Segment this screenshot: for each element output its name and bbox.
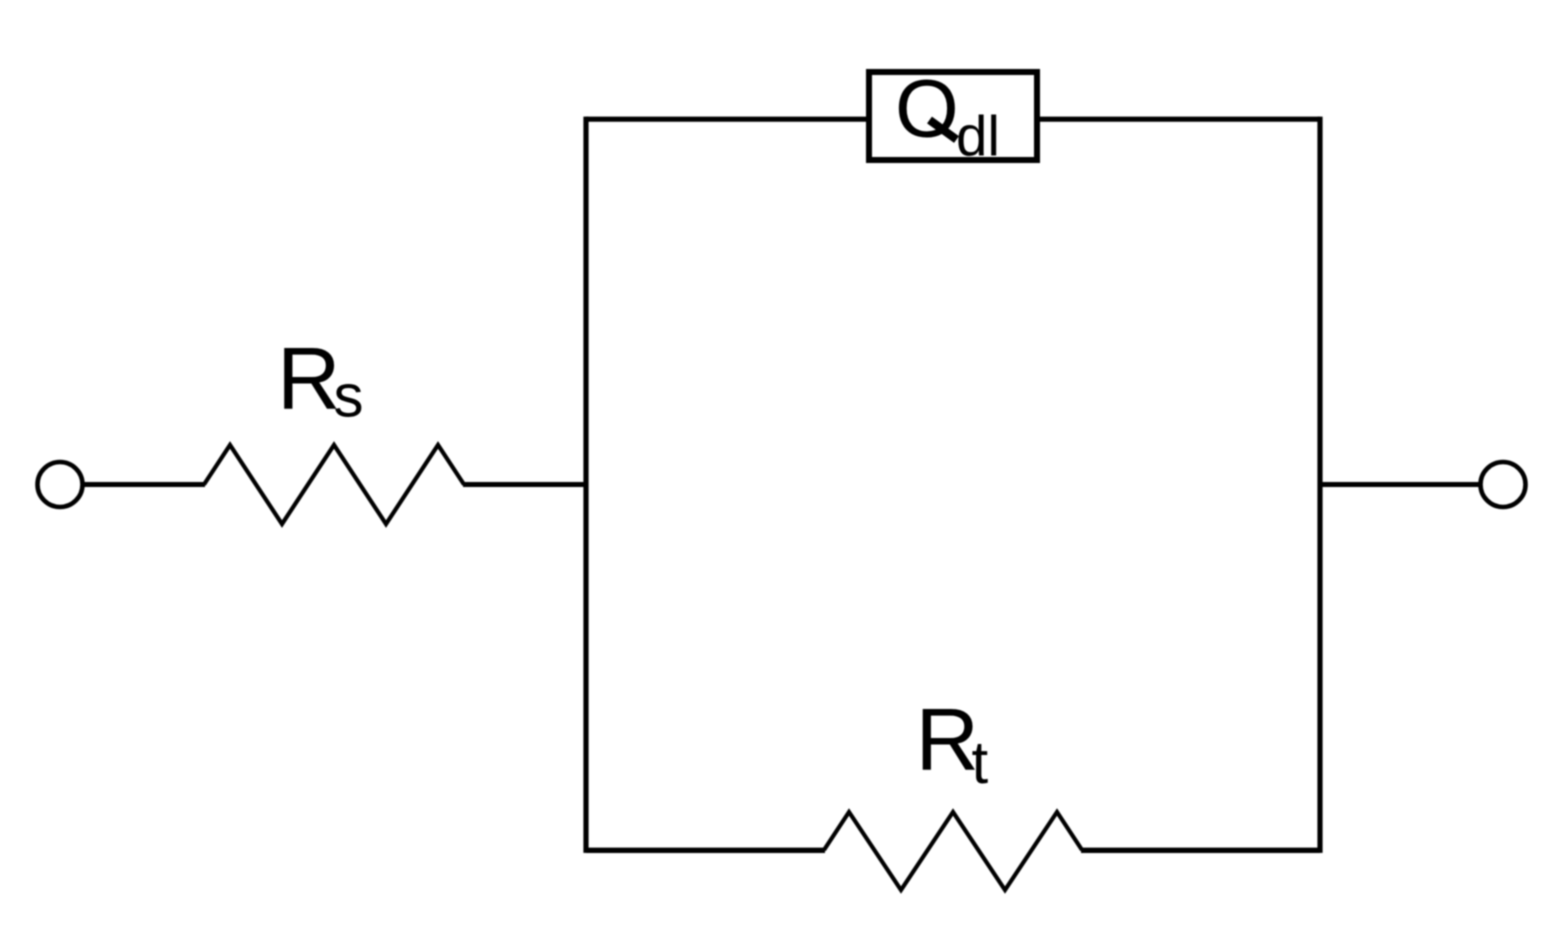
CPE Qdl box <box>869 72 1037 160</box>
terminal right <box>1481 462 1526 507</box>
resistor Rs <box>204 445 464 524</box>
svg-text:s: s <box>334 363 364 430</box>
wire top-right segment <box>1037 117 1320 122</box>
svg-text:R: R <box>277 329 341 428</box>
svg-text:O: O <box>895 64 959 155</box>
svg-text:t: t <box>972 729 989 796</box>
resistor Rt <box>824 812 1082 890</box>
wire output <box>1320 482 1482 487</box>
wire top-left segment <box>586 117 869 122</box>
wire left vertical branch (node A) <box>583 117 588 853</box>
svg-text:dl: dl <box>956 105 1000 168</box>
label Rs <box>277 329 364 430</box>
svg-text:R: R <box>916 690 980 789</box>
wire Rs to node A <box>463 482 588 487</box>
wire right vertical branch (node B) <box>1317 117 1322 853</box>
wire bottom-left segment <box>586 848 825 853</box>
label Rt <box>916 690 989 797</box>
wire input to Rs <box>81 482 205 487</box>
terminal left <box>38 462 83 507</box>
wire bottom-right segment <box>1081 848 1320 853</box>
label Qdl <box>895 64 1000 168</box>
